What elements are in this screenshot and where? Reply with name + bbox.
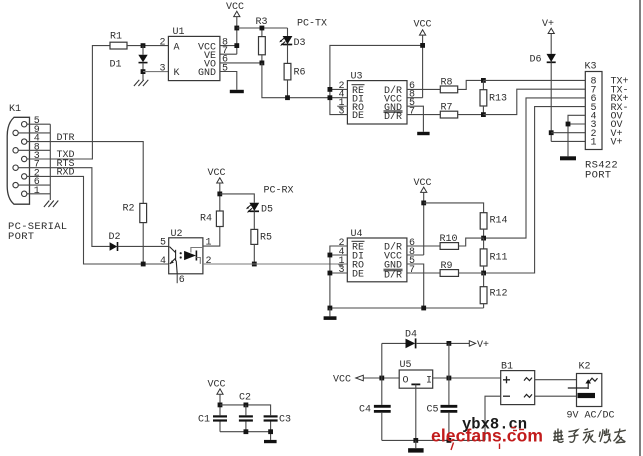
wire V+ top rail	[382, 342, 406, 344]
K1 pin circles	[13, 122, 27, 197]
wire U4 pin8 stub	[407, 254, 424, 256]
node TX- / R13 bottom	[481, 112, 486, 117]
svg-text:O: O	[403, 376, 409, 387]
resistor R8	[407, 78, 483, 93]
svg-text:C3: C3	[279, 415, 291, 426]
node VCC/R4/D5 junction	[217, 192, 222, 197]
svg-text:VCC: VCC	[414, 178, 432, 189]
node U1 pin8	[234, 43, 239, 48]
connector K3	[585, 62, 603, 150]
node U3 pin4	[328, 95, 333, 100]
K1 ground hatch	[44, 201, 58, 208]
resistor R11	[480, 238, 507, 273]
svg-text:elecfans.com: elecfans.com	[431, 426, 543, 446]
svg-text:6: 6	[179, 275, 185, 286]
capacitor C4	[359, 405, 391, 441]
svg-text:U1: U1	[173, 27, 185, 38]
wire RTS: K1 pin7 down to D2 line	[18, 168, 109, 247]
svg-text:2: 2	[160, 37, 166, 48]
U2 coupling dots	[180, 252, 182, 254]
svg-text:1: 1	[206, 238, 212, 249]
wire VCC junction to R14	[424, 203, 484, 213]
wire U2 pin6 dangle	[176, 274, 178, 283]
node C2 bottom	[244, 429, 249, 434]
capacitor C2	[239, 393, 253, 432]
svg-text:C2: C2	[239, 393, 251, 404]
wire B1 minus to ground rail	[485, 396, 501, 440]
IC U4 RS485 driver	[347, 229, 407, 282]
node top rail / C5 riser	[447, 341, 452, 346]
svg-text:K3: K3	[585, 62, 597, 73]
node D1 cathode junction	[141, 69, 146, 74]
connector K1 shell	[7, 104, 29, 204]
svg-text:9V AC/DC: 9V AC/DC	[567, 410, 615, 422]
wire U4 DE stub	[330, 272, 347, 274]
node U4 pin4	[328, 253, 333, 258]
resistor R4	[200, 211, 223, 246]
K3 pin numbers	[591, 77, 597, 149]
svg-text:I: I	[426, 376, 432, 387]
power VCC top-left	[226, 2, 244, 54]
svg-text:7: 7	[409, 106, 415, 117]
U2 phototransistor	[170, 247, 178, 274]
node rail at U4 riser	[328, 306, 333, 311]
K3 signal names	[611, 77, 629, 149]
resistor R10	[407, 234, 484, 249]
svg-text:VCC: VCC	[226, 2, 244, 13]
wire U2 pin2 to U4 RO	[203, 263, 347, 265]
svg-text:D5: D5	[261, 205, 273, 216]
svg-text:4: 4	[160, 256, 166, 267]
node rail / C5	[447, 438, 452, 443]
wire cap top rail	[220, 405, 271, 415]
node R14 bottom / RX+	[481, 236, 486, 241]
U4 pin numbers	[339, 238, 416, 276]
svg-text:VCC: VCC	[333, 375, 351, 386]
resistor R9	[407, 261, 484, 276]
U2 emitter arrow	[170, 260, 174, 264]
power VCC above C1	[208, 380, 226, 416]
svg-text:R2: R2	[123, 204, 135, 215]
resistor R1	[110, 32, 168, 50]
ground bar C3	[264, 440, 277, 443]
node R1/D1 junction	[141, 43, 146, 48]
svg-text:R5: R5	[260, 233, 272, 244]
wire U4 DI stub	[330, 254, 347, 256]
IC U1 optocoupler	[168, 27, 220, 80]
IC U2 optocoupler	[169, 229, 203, 274]
svg-text:R12: R12	[490, 289, 508, 300]
RS422 PORT label	[585, 160, 618, 182]
node R6 bottom	[285, 95, 290, 100]
wire RX+ from R14 junction to K3 pin6	[484, 98, 586, 238]
svg-text:VCC: VCC	[208, 168, 226, 179]
svg-text:5: 5	[160, 238, 166, 249]
node TX+ / R13 top	[481, 78, 486, 83]
wire U1 pin6 stub	[220, 62, 262, 64]
svg-text:D/R: D/R	[384, 270, 402, 282]
U1 pin numbers	[160, 37, 229, 74]
wire B1 to K2 bottom	[535, 395, 578, 397]
node U5-B1 line / C5 junction	[447, 376, 452, 381]
wire U3 RO stub	[337, 105, 347, 107]
wire R3 bottom down to DI line	[262, 63, 330, 98]
node U3 pin2	[328, 87, 333, 92]
connector K2 power jack	[568, 362, 602, 407]
svg-text:D1: D1	[110, 60, 122, 71]
svg-text:U2: U2	[171, 229, 183, 240]
node R3 top	[260, 26, 265, 31]
resistor R5	[251, 211, 272, 264]
svg-text:V+: V+	[611, 138, 623, 149]
svg-text:U3: U3	[351, 72, 363, 83]
ground hatch under D1	[134, 80, 148, 86]
node K3 pin3 junction	[566, 122, 571, 127]
wire U3 DI stub	[330, 97, 348, 99]
svg-text:B1: B1	[501, 362, 513, 373]
svg-text:1: 1	[34, 186, 40, 197]
wire U3 RE stub	[330, 88, 348, 90]
wire TX+ to K3 pin8	[483, 79, 585, 81]
svg-text:R11: R11	[490, 253, 508, 264]
node VCC rail / U1 riser	[234, 26, 239, 31]
resistor R13	[480, 80, 507, 114]
svg-text:V+: V+	[542, 19, 554, 30]
power VCC above U3	[414, 20, 432, 98]
wire K3 pin4 OV to ground riser	[568, 115, 585, 156]
node C3 bottom	[268, 429, 273, 434]
resistor R2	[123, 203, 147, 264]
wire U1 pin8 stub	[220, 45, 237, 47]
power VCC above R4	[208, 168, 226, 211]
U4 RO down-arrow	[338, 264, 344, 268]
svg-text:C5: C5	[427, 405, 439, 416]
wire cap bottom rail	[220, 431, 271, 433]
svg-text:RXD: RXD	[57, 168, 75, 179]
svg-text:K: K	[174, 68, 180, 79]
ground bar U5	[408, 448, 424, 452]
svg-text:R4: R4	[200, 214, 212, 225]
ground bar U3	[417, 132, 429, 135]
diode D4	[405, 330, 417, 349]
wire C4 riser	[381, 343, 383, 405]
frame right border	[639, 0, 641, 456]
IC U3 RS485 driver	[347, 72, 407, 125]
wire RX- from R9 junction to K3 pin5	[484, 107, 586, 273]
wire U5 gnd drop	[415, 440, 417, 448]
diode D6	[530, 54, 556, 141]
node D6 / K3 pin2	[549, 130, 554, 135]
svg-text:1: 1	[591, 138, 597, 149]
diode D2	[109, 232, 169, 251]
wire U1 pin7 stub	[220, 53, 237, 55]
svg-text:D/R: D/R	[384, 111, 402, 123]
wire power ground rail	[382, 439, 485, 441]
U2 pin numbers	[160, 238, 212, 286]
power V+ arrow (right)	[469, 340, 489, 351]
capacitor C1	[198, 415, 227, 432]
svg-text:R13: R13	[489, 94, 507, 105]
node VCC / RE-rail junction	[420, 43, 425, 48]
resistor R7	[407, 103, 483, 118]
node C2 top	[244, 403, 249, 408]
ground bar U4	[324, 308, 337, 320]
svg-text:2: 2	[206, 256, 212, 267]
power V+ top right	[542, 19, 554, 54]
power VCC feed (left arrow)	[333, 375, 399, 386]
ground bar U1	[230, 90, 244, 93]
svg-text:A: A	[174, 42, 180, 53]
svg-text:PC-TX: PC-TX	[297, 19, 327, 30]
svg-text:V+: V+	[477, 340, 489, 351]
svg-text:D3: D3	[294, 38, 306, 49]
node VCC line / C4 junction	[379, 376, 384, 381]
svg-text:PORT: PORT	[585, 170, 611, 182]
wire B1 to K2 top	[535, 379, 577, 381]
wire TXD: K1 pin3 up to R1	[27, 46, 110, 159]
svg-text:K2: K2	[579, 362, 591, 373]
svg-text:VCC: VCC	[208, 380, 226, 391]
node VCC / R14 rail junction	[421, 201, 426, 206]
regulator U5	[399, 360, 433, 440]
U3 pin numbers	[339, 81, 416, 117]
wire K3 pin3 stub	[568, 123, 585, 125]
wire U5 out to B1	[433, 377, 501, 379]
LED D3	[279, 28, 305, 49]
wire VCC rail to D3	[237, 27, 288, 29]
ground bar K3	[560, 156, 576, 160]
node R3 bottom	[260, 61, 265, 66]
resistor R14	[480, 213, 507, 238]
svg-text:K1: K1	[9, 104, 21, 115]
node U4 pin3	[328, 271, 333, 276]
svg-text:R14: R14	[490, 216, 508, 227]
svg-text:7: 7	[409, 265, 415, 276]
svg-text:5: 5	[222, 63, 228, 74]
capacitor C3	[264, 415, 291, 440]
node rail / U5 gnd	[413, 438, 418, 443]
svg-text:PC-RX: PC-RX	[264, 186, 294, 197]
wire U4 RE/DI/DE tie down to ground rail	[330, 246, 347, 308]
svg-text:VCC: VCC	[414, 20, 432, 31]
node R11 bottom / RX-	[481, 271, 486, 276]
ground rail under U4	[330, 307, 484, 309]
wire U3 pin5 to ground	[407, 106, 423, 132]
svg-text:3: 3	[160, 63, 166, 74]
svg-text:GND: GND	[198, 68, 216, 79]
svg-text:C4: C4	[359, 405, 371, 416]
node rail at U4 pin5 drop	[421, 306, 426, 311]
svg-text:R6: R6	[294, 68, 306, 79]
diode D1	[110, 46, 148, 81]
resistor R12	[480, 273, 507, 308]
PC-SERIAL PORT label	[8, 221, 67, 243]
watermark chinese brand	[553, 429, 626, 444]
svg-text:D2: D2	[109, 232, 121, 243]
svg-text:U4: U4	[351, 229, 363, 240]
svg-text:DE: DE	[352, 111, 364, 122]
resistor R3	[256, 17, 268, 63]
wire K3 pin1 stub	[551, 140, 585, 142]
LED D5	[246, 203, 273, 216]
wire TX- to K3 pin7	[483, 89, 585, 114]
svg-text:PORT: PORT	[8, 231, 34, 243]
wire K3 pin2 stub	[551, 132, 585, 134]
wire D1 junction to U1 pin3	[143, 71, 168, 73]
U3 RO down-arrow	[338, 106, 344, 110]
node R2 bottom / RXD line	[141, 262, 146, 267]
wire VCC junction to D5	[220, 194, 255, 203]
node R5 bottom / RO line	[252, 262, 257, 267]
power VCC above U4	[414, 178, 432, 255]
wire RXD: K1 pin2 down to U2 pin4 line	[27, 176, 169, 264]
svg-text:C1: C1	[198, 415, 210, 426]
svg-text:DE: DE	[352, 270, 364, 281]
svg-text:D6: D6	[530, 55, 542, 66]
wire DTR: K1 pin4 to R2 top	[27, 142, 143, 204]
bridge B1	[501, 362, 535, 405]
svg-text:R1: R1	[110, 32, 122, 43]
wire U3 RE/DE tie riser to VCC	[330, 45, 423, 114]
resistor R6	[284, 45, 305, 98]
watermark red marks	[451, 428, 524, 451]
svg-text:U5: U5	[400, 360, 412, 371]
K1 ground bus wires (pins 5,9,8,6,1)	[18, 124, 50, 200]
wire U3 pin8 stub	[407, 97, 423, 99]
K1 pin numbers	[34, 116, 40, 197]
capacitor C5	[427, 405, 458, 441]
node VCC / C1 top junction	[218, 403, 223, 408]
wire U4 pin5 to ground rail	[407, 264, 424, 308]
wire C5 riser	[448, 343, 450, 405]
U2 LED	[184, 248, 203, 264]
wire U1 pin5 to ground	[220, 72, 237, 90]
